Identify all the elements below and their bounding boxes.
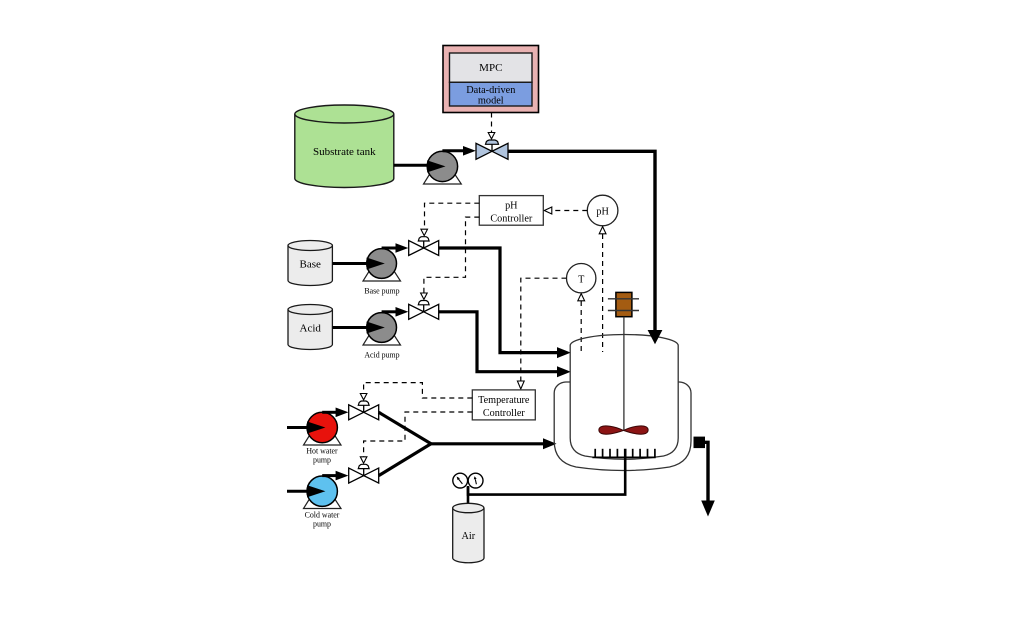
wire: MPC to substrate valve (dashed) <box>491 113 493 133</box>
svg-text:model: model <box>478 96 504 107</box>
valve V4 (hot water) <box>349 401 379 420</box>
wire: pH controller to base valve (dashed) <box>425 203 480 229</box>
sparger <box>592 449 655 458</box>
wire: hot water supply <box>287 426 308 429</box>
fat arrow into reactor top <box>648 330 663 344</box>
svg-text:Controller: Controller <box>483 408 525 419</box>
pH sensor S1 <box>587 195 618 226</box>
arrow into reactor left (acid) <box>557 366 571 377</box>
pump P1 (substrate) <box>424 151 462 184</box>
reactor jacket <box>554 382 691 471</box>
T sensor S2 <box>567 264 596 293</box>
stirrer motor M1 <box>608 292 639 316</box>
outlet port <box>694 437 706 449</box>
stirrer shaft <box>623 317 625 430</box>
svg-text:pH: pH <box>596 207 609 218</box>
wire: temperature controller to hot valve (dashed) <box>364 383 473 398</box>
wire: cold valve to water junction <box>379 444 431 476</box>
wire: base pump to base valve <box>382 247 396 250</box>
wire: T sensor to temperature controller (dashed) <box>521 278 567 381</box>
svg-text:Temperature: Temperature <box>478 395 530 406</box>
air tank T4 <box>453 503 484 562</box>
svg-text:Data-driven: Data-driven <box>466 85 515 96</box>
svg-text:pump: pump <box>313 520 331 529</box>
substrate tank T1 <box>295 105 394 188</box>
svg-text:Substrate tank: Substrate tank <box>313 146 376 158</box>
valve V5 (cold water) <box>349 464 379 483</box>
wire: temperature controller to cold valve (dashed) <box>364 412 473 457</box>
valve V1 (substrate, MPC controlled) <box>476 140 508 159</box>
open arrow into hot valve actuator <box>360 394 367 400</box>
svg-text:MPC: MPC <box>479 62 502 74</box>
wire: base valve to reactor <box>439 248 557 353</box>
wire: pH sensor to pH controller (dashed) <box>552 210 587 212</box>
valve V3 (acid) <box>409 301 439 320</box>
svg-text:Acid pump: Acid pump <box>364 351 399 360</box>
pump P2 (base) <box>363 249 401 296</box>
acid tank T3 <box>288 305 332 350</box>
wire: acid tank to acid pump <box>332 326 368 329</box>
wire: acid pump to acid valve <box>382 310 396 313</box>
wire: reactor to pH sensor probe (dashed) <box>602 234 604 352</box>
svg-text:pH: pH <box>505 201 518 212</box>
open arrow into base valve actuator <box>421 229 428 235</box>
open arrow into pH sensor bottom <box>599 227 606 234</box>
svg-text:T: T <box>578 275 585 286</box>
svg-text:Base pump: Base pump <box>364 287 399 296</box>
wire: reactor to T sensor probe (dashed) <box>580 301 582 352</box>
reactor vessel <box>570 335 678 460</box>
wire: substrate tank to pump <box>394 164 429 167</box>
svg-text:Air: Air <box>462 531 476 542</box>
wire: outlet line <box>705 442 708 501</box>
pump P3 (acid) <box>363 313 401 360</box>
open arrow into acid valve actuator <box>421 293 428 299</box>
air regulator gauges <box>453 473 483 488</box>
MPC controller block U1 <box>443 46 539 113</box>
svg-text:Controller: Controller <box>490 214 532 225</box>
open arrow into temperature controller top <box>517 381 524 389</box>
wire: base tank to base pump <box>332 262 368 265</box>
wire: hot valve to water junction <box>379 412 431 444</box>
wire: pH controller to acid valve (dashed) <box>424 217 479 293</box>
fat arrow outlet down <box>701 501 715 517</box>
svg-text:Cold water: Cold water <box>305 511 340 520</box>
open arrow into T sensor bottom <box>578 294 585 301</box>
svg-text:Base: Base <box>300 259 322 271</box>
svg-text:pump: pump <box>313 456 331 465</box>
temperature controller block U3 <box>472 390 535 420</box>
arrow into jacket left <box>543 438 557 449</box>
wire: regulator stem to air tank <box>467 487 470 511</box>
wire: valve V1 to reactor (substrate feed) <box>508 151 655 331</box>
wire: pump P1 to valve V1 <box>442 149 463 152</box>
open arrow into cold valve actuator <box>360 457 367 463</box>
base tank T2 <box>288 241 332 286</box>
open arrow into pH controller right edge <box>544 207 552 214</box>
wire: hot pump to hot valve <box>322 411 336 414</box>
wire: water junction to jacket <box>430 442 543 445</box>
valve V2 (base) <box>409 237 439 256</box>
wire: acid valve to reactor <box>439 312 557 372</box>
impeller <box>599 426 648 434</box>
svg-text:Hot water: Hot water <box>306 447 338 456</box>
wire: cold water supply <box>287 490 308 493</box>
pump P4 (hot water) <box>304 412 342 464</box>
pump P5 (cold water) <box>304 476 342 529</box>
pH controller block U2 <box>479 196 543 226</box>
svg-text:Acid: Acid <box>300 323 322 335</box>
open arrow into substrate valve actuator <box>488 133 495 139</box>
wire: air pipe into sparger <box>468 449 625 495</box>
wire: cold pump to cold valve <box>322 474 336 477</box>
arrow into reactor left (base) <box>557 347 571 358</box>
